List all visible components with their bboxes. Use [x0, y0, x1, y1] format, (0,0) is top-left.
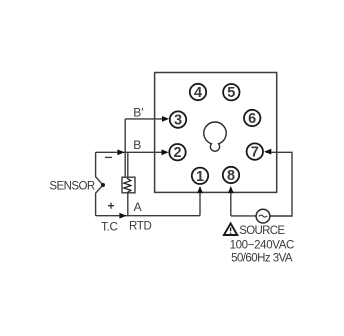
- AC source tilde: [259, 215, 267, 217]
- wire pin 8 vertical: [230, 190, 232, 216]
- wire RTD bottom vertical: [127, 193, 129, 216]
- warning triangle: [224, 223, 237, 235]
- svg-text:RTD: RTD: [129, 220, 152, 232]
- wire B vertical down to RTD: [127, 152, 129, 177]
- pin 6: [244, 110, 260, 127]
- warning exclamation: [230, 228, 232, 234]
- pin 4: [190, 84, 206, 101]
- arrow into pin 7: [264, 149, 271, 155]
- sensor junction dot: [101, 183, 105, 187]
- wire B' vertical down to RTD: [124, 119, 126, 178]
- pin 7: [247, 143, 263, 160]
- arrow into pin 2: [162, 149, 169, 155]
- svg-text:2: 2: [173, 145, 181, 161]
- arrow into pin 1: [197, 186, 203, 193]
- resistor RTD zigzag: [124, 178, 131, 192]
- wire pin 8 to AC source: [231, 215, 256, 217]
- svg-text:3: 3: [174, 113, 182, 129]
- pin 8: [223, 167, 239, 184]
- svg-text:7: 7: [251, 145, 259, 161]
- svg-text:B′: B′: [133, 106, 144, 120]
- arrow into pin 8: [228, 186, 234, 193]
- svg-text:50/60Hz 3VA: 50/60Hz 3VA: [231, 253, 293, 265]
- keyhole (socket center key): [204, 122, 226, 151]
- wire sensor minus / B horizontal to pin 2: [96, 151, 164, 153]
- arrow into pin 3: [162, 116, 169, 122]
- svg-text:SENSOR: SENSOR: [49, 181, 95, 193]
- wire sensor plus / A bottom horizontal: [96, 215, 200, 217]
- svg-text:4: 4: [194, 85, 202, 101]
- svg-text:B: B: [133, 138, 141, 152]
- svg-text:5: 5: [227, 85, 235, 101]
- wire B' horizontal to pin 3: [125, 118, 164, 120]
- sensor symbol (thermocouple kink): [96, 152, 103, 215]
- pin 5: [223, 84, 239, 101]
- pin 2: [169, 144, 185, 161]
- pin 3: [170, 111, 186, 128]
- svg-text:6: 6: [248, 111, 256, 127]
- pin 1: [192, 168, 208, 185]
- label minus: [105, 156, 112, 158]
- wire AC source to right riser: [266, 152, 292, 216]
- svg-text:100−240VAC: 100−240VAC: [230, 240, 294, 252]
- svg-text:A: A: [134, 200, 142, 214]
- svg-text:SOURCE: SOURCE: [239, 225, 285, 237]
- resistor RTD body: [122, 177, 135, 193]
- wire pin 1 vertical: [199, 190, 201, 216]
- arrow mid A wire: [119, 213, 126, 219]
- label plus: [108, 203, 114, 209]
- arrow mid B wire: [117, 149, 124, 155]
- svg-text:1: 1: [196, 169, 204, 185]
- svg-text:T.C: T.C: [101, 221, 117, 233]
- socket outline (8-pin socket body): [155, 73, 277, 193]
- AC source circle: [256, 209, 270, 223]
- svg-text:8: 8: [227, 168, 235, 184]
